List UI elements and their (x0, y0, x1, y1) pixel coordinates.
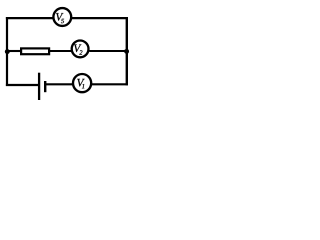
battery long plate (positive) (38, 73, 40, 100)
wire middle left segment (7, 50, 22, 52)
wire middle center segment (50, 50, 71, 52)
wire right vertical (126, 17, 128, 85)
voltmeter V1 (73, 74, 91, 92)
wire top left segment (6, 17, 53, 19)
node junction left (5, 49, 10, 54)
battery short plate (negative) (44, 81, 46, 92)
resistor R (21, 48, 49, 54)
voltmeter V2 (72, 41, 89, 58)
wire bottom right segment (92, 83, 128, 85)
background (0, 0, 143, 107)
wire middle right segment (89, 50, 127, 52)
wire top right segment (71, 17, 127, 19)
wire bottom center segment (45, 83, 72, 85)
node junction right (124, 49, 129, 54)
voltmeter V5 (53, 8, 71, 26)
wire left vertical (6, 17, 8, 86)
wire bottom left segment (6, 84, 38, 86)
